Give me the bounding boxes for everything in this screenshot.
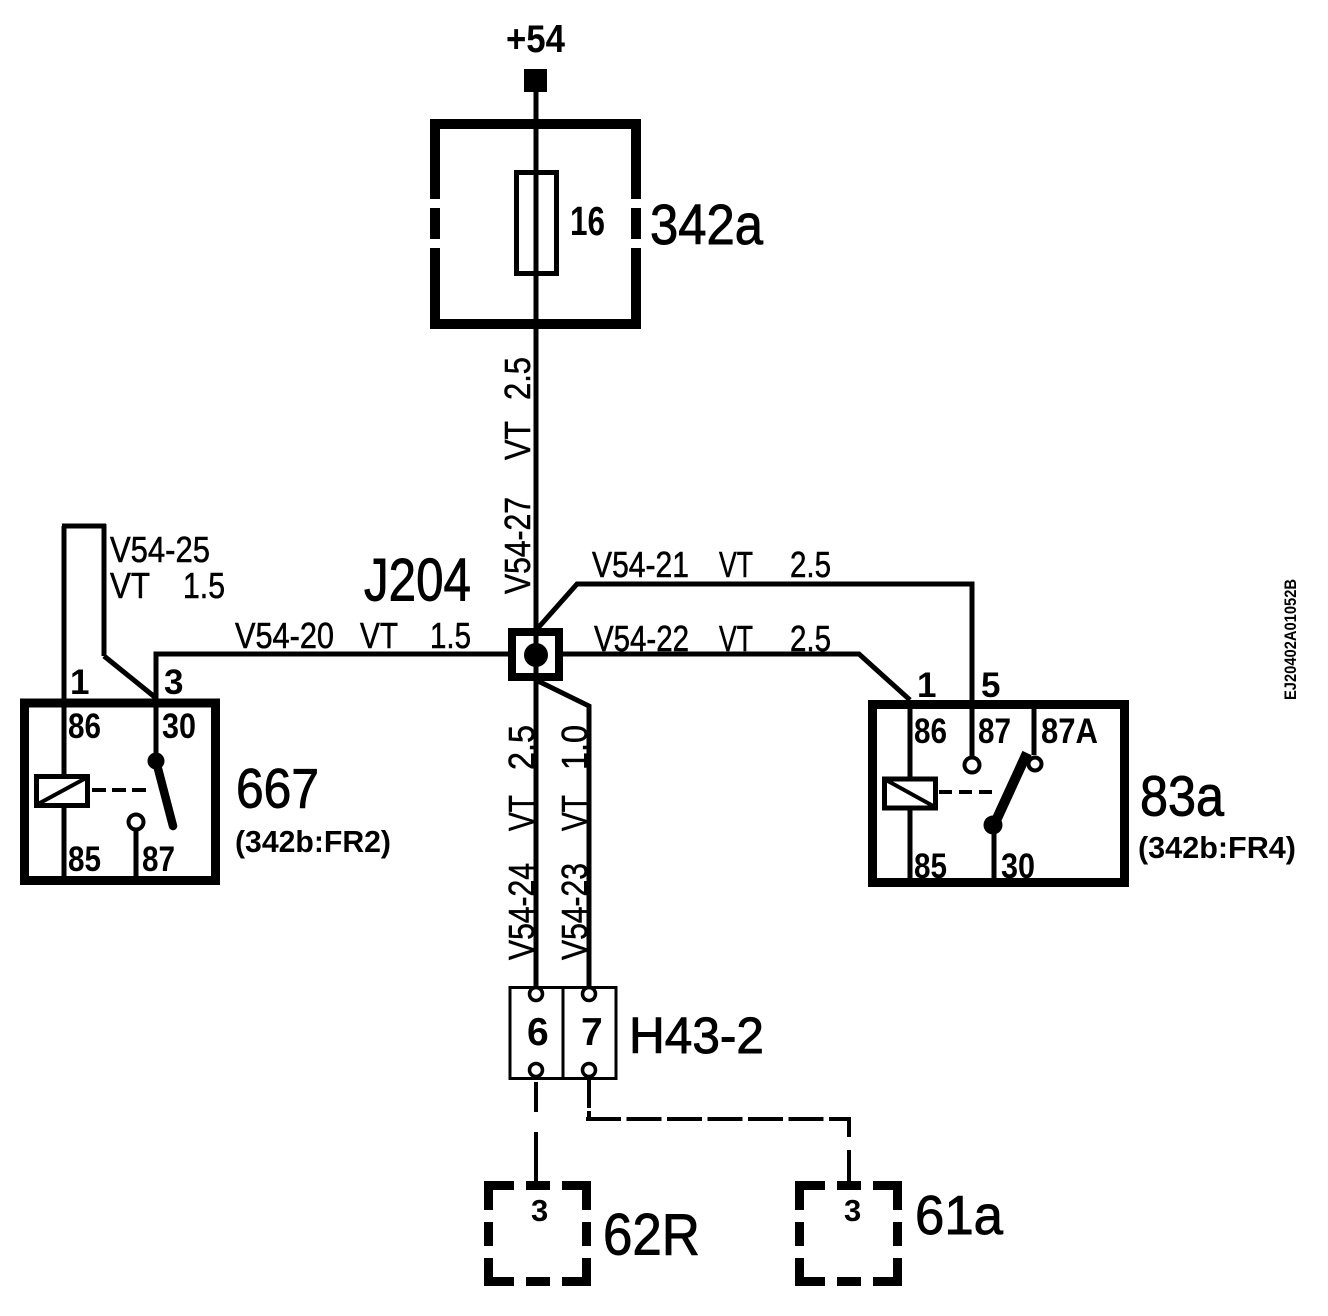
relay 83a pin 30 label <box>1001 847 1035 886</box>
wire label V54-21 VT 2.5 <box>592 544 831 585</box>
relay 667 dashed actuation link <box>92 788 152 792</box>
61a pin 3 label <box>844 1193 861 1228</box>
relay 83a pin 87A contact circle <box>1029 758 1042 771</box>
svg-text:87: 87 <box>142 840 175 879</box>
junction box J204 <box>512 632 559 677</box>
wire label V54-23 VT 1.0 (rotated) <box>554 725 595 960</box>
relay 667 pin 30 wire into switch <box>154 698 159 762</box>
relay 83a coil wire below to pin 85 <box>908 808 913 882</box>
svg-text:61a: 61a <box>915 1184 1003 1246</box>
relay 667 pin 86 label <box>68 707 101 746</box>
relay 83a pin 5 label <box>981 666 1000 705</box>
svg-text:1: 1 <box>70 663 89 702</box>
relay 83a box <box>873 705 1125 883</box>
svg-text:30: 30 <box>162 707 196 746</box>
svg-text:J204: J204 <box>364 547 471 614</box>
svg-text:(342b:FR4): (342b:FR4) <box>1138 830 1296 865</box>
connector H43-2 pin 6 top circle <box>530 988 543 1001</box>
power terminal +54 (filled square) <box>524 69 547 92</box>
svg-text:3: 3 <box>164 663 183 702</box>
relay 83a pin 87A wire <box>1032 705 1037 755</box>
relay 83a switch arm <box>994 753 1027 825</box>
svg-text:+54: +54 <box>506 18 565 61</box>
relay 83a pin 87 label <box>978 712 1011 751</box>
relay 667 pin 87 contact circle <box>129 815 144 830</box>
relay 667 pin 87 wire <box>134 830 139 881</box>
svg-text:VT: VT <box>110 565 150 606</box>
wire V54-25 jumper from relay 667 pin 1 to pin 3 <box>62 524 156 776</box>
svg-text:V54-25: V54-25 <box>110 529 210 570</box>
svg-text:1.5: 1.5 <box>430 615 471 656</box>
svg-text:V54-22: V54-22 <box>594 618 689 659</box>
relay 667 pin 85 label <box>68 840 101 879</box>
svg-text:1: 1 <box>917 666 936 705</box>
svg-text:7: 7 <box>581 1011 603 1054</box>
svg-text:342a: 342a <box>650 193 763 257</box>
wire V54-23 from junction to H43-2 pin 7 <box>538 681 589 988</box>
net +54 label <box>506 18 565 61</box>
relay 83a switch pivot dot <box>984 816 1003 835</box>
relay 667 box <box>25 703 216 881</box>
dashed wire from H43-2 pin 6 to 62R <box>534 1082 538 1182</box>
svg-text:1.5: 1.5 <box>183 565 225 606</box>
svg-text:62R: 62R <box>603 1203 700 1268</box>
fuse value 16 <box>570 198 605 244</box>
junction label J204 <box>364 547 471 614</box>
component label 62R <box>603 1203 700 1268</box>
wire label V54-27 VT 2.5 (rotated) <box>497 357 538 594</box>
svg-text:86: 86 <box>68 707 101 746</box>
junction node dot <box>524 643 548 667</box>
relay 83a pin 87A label <box>1041 712 1098 751</box>
svg-text:85: 85 <box>914 847 947 886</box>
wire label V54-22 VT 2.5 <box>594 618 831 659</box>
wire label V54-24 VT 2.5 (rotated) <box>501 725 542 960</box>
connector H43-2 pin 7 top circle <box>583 988 596 1001</box>
relay 83a dashed actuation link <box>939 790 996 794</box>
fuse box 342a outline (dashed vertical edges) <box>430 119 641 329</box>
relay 667 switch pivot dot <box>148 753 165 770</box>
svg-text:16: 16 <box>570 198 605 244</box>
connector H43-2 pin 7 label <box>581 1011 603 1054</box>
component label 61a <box>915 1184 1003 1246</box>
component label 667 <box>236 757 319 820</box>
svg-text:VT: VT <box>719 544 753 585</box>
svg-text:83a: 83a <box>1140 765 1224 829</box>
component 62R dashed box <box>484 1181 591 1286</box>
svg-text:V54-20: V54-20 <box>235 615 334 656</box>
svg-text:87A: 87A <box>1041 712 1098 751</box>
svg-text:3: 3 <box>844 1193 861 1228</box>
drawing code EJ20402A01052B (rotated) <box>1281 579 1300 700</box>
fuse 16 body <box>517 173 557 274</box>
wire V54-21 from junction to relay 83a pin 5 <box>538 584 972 757</box>
wire label V54-20 VT 1.5 <box>235 615 471 656</box>
component sublabel (342b:FR4) <box>1138 830 1296 865</box>
relay 83a pin 87 contact circle <box>965 758 980 773</box>
connector label H43-2 <box>629 1007 764 1064</box>
relay 667 pin 87 label <box>142 840 175 879</box>
svg-text:6: 6 <box>527 1011 549 1054</box>
svg-text:86: 86 <box>914 712 947 751</box>
62R pin 3 label <box>531 1193 548 1228</box>
component label 83a <box>1140 765 1224 829</box>
svg-text:VT: VT <box>719 618 753 659</box>
wire label V54-25 VT 1.5 <box>110 529 225 606</box>
wire V54-22 from junction to relay 83a pin 1 <box>563 654 910 700</box>
relay 667 pin 1 label <box>70 663 89 702</box>
relay 83a coil <box>885 779 936 808</box>
connector H43-2 box <box>510 987 616 1079</box>
svg-text:EJ20402A01052B: EJ20402A01052B <box>1281 579 1300 700</box>
relay 667 coil <box>37 777 88 806</box>
relay 667 switch arm <box>156 761 173 826</box>
svg-text:H43-2: H43-2 <box>629 1007 764 1064</box>
relay 667 pin 30 label <box>162 707 196 746</box>
relay 667 coil wire below to pin 85 <box>62 806 67 880</box>
relay 83a pin 86 label <box>914 712 947 751</box>
component label 342a <box>650 193 763 257</box>
connector H43-2 pin 6 bottom circle <box>530 1064 543 1077</box>
connector H43-2 pin 6 label <box>527 1011 549 1054</box>
svg-text:30: 30 <box>1001 847 1035 886</box>
connector H43-2 pin 7 bottom circle <box>583 1064 596 1077</box>
wire V54-27 vertical from +54 terminal through fuse box to junction J204 <box>534 92 539 988</box>
relay 83a pin 1 label <box>917 666 936 705</box>
svg-text:(342b:FR2): (342b:FR2) <box>235 824 391 859</box>
svg-text:2.5: 2.5 <box>790 544 831 585</box>
dashed wire from H43-2 pin 7 to 61a <box>586 1080 851 1181</box>
svg-text:667: 667 <box>236 757 319 820</box>
relay 83a pin 30 wire <box>992 825 997 882</box>
svg-text:2.5: 2.5 <box>790 618 831 659</box>
component sublabel (342b:FR2) <box>235 824 391 859</box>
relay 667 pin 3 label <box>164 663 183 702</box>
svg-text:VT: VT <box>360 615 398 656</box>
svg-text:5: 5 <box>981 666 1000 705</box>
relay 83a pin 86 wire <box>908 700 913 777</box>
svg-text:87: 87 <box>978 712 1011 751</box>
relay 83a pin 85 label <box>914 847 947 886</box>
svg-text:85: 85 <box>68 840 101 879</box>
component 61a dashed box <box>795 1181 902 1286</box>
wire V54-20 from junction to relay 667 pin 3 <box>156 654 508 698</box>
svg-text:3: 3 <box>531 1193 548 1228</box>
svg-text:V54-21: V54-21 <box>592 544 689 585</box>
